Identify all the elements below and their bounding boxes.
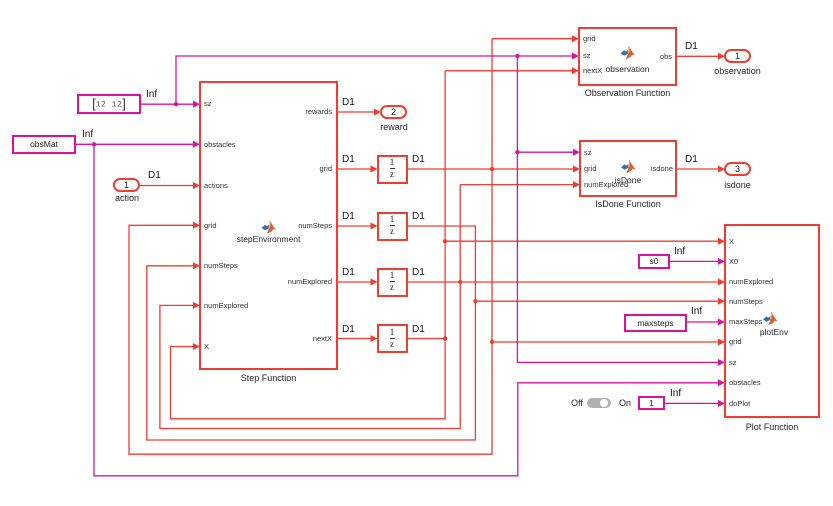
icon stepEnvironment [262, 220, 277, 234]
wire obstacles down to Plot obstacles [94, 144, 719, 476]
wire doPlot const to Plot doPlot [664, 402, 719, 404]
icon isDone [621, 160, 636, 174]
icon observation [621, 46, 636, 60]
label D1 numExplored in [342, 268, 355, 278]
constant 1 doPlot [638, 396, 665, 410]
wire action to Step actions [140, 185, 194, 187]
label D1 nextX out [412, 325, 425, 335]
outport 2 reward [380, 105, 407, 119]
wire numExplored out to unit delay [337, 281, 371, 283]
unit delay grid [377, 155, 408, 184]
outport 1 observation [724, 49, 751, 63]
wire numSteps out to unit delay [337, 225, 371, 227]
label D1 numSteps out [412, 212, 425, 222]
constant obsMat [12, 135, 76, 154]
constant [12 12] [77, 94, 141, 114]
label D1 numSteps in [342, 212, 355, 222]
label D1 grid out [412, 155, 425, 165]
wire s0 to Plot X0 [669, 260, 719, 262]
wire nextX delay out to junction [407, 338, 445, 340]
arrowheads red [193, 35, 725, 350]
wire numExplored branch to IsDone numExplored and feedback to Step numExplored [160, 185, 574, 429]
label D1 isdone [685, 155, 698, 165]
label D1 nextX in [342, 325, 355, 335]
wire grid branch vertical / Observation grid / Plot grid / feedback to Step grid [129, 39, 719, 455]
label Inf maxsteps [691, 307, 702, 317]
label Inf doPlot [670, 389, 681, 399]
label D1 obs [685, 42, 698, 52]
unit delay nextX [377, 324, 408, 353]
wire nextX out to unit delay [337, 338, 371, 340]
block Plot Function [724, 224, 820, 418]
block IsDone Function [579, 140, 677, 197]
junction dots magenta [92, 54, 520, 155]
arrowheads magenta [193, 53, 725, 407]
unit delay numSteps [377, 212, 408, 241]
wire sz up to Observation sz [176, 56, 573, 104]
label Inf s0 [674, 247, 685, 257]
wire isdone to outport 3 [677, 168, 718, 170]
wire grid out to unit delay [337, 168, 371, 170]
block Step Function [199, 81, 338, 370]
junction dots red [443, 167, 494, 344]
label D1 action [148, 171, 161, 181]
wire sz constant to Step sz [140, 103, 194, 105]
wire sz down to IsDone sz and Plot sz [517, 56, 719, 362]
label D1 rewards [342, 98, 355, 108]
label Inf obsMat [82, 130, 93, 140]
wire nextX vertical / Observation nextX / Plot X / feedback to Step X [171, 71, 720, 419]
label Inf [12 12] [146, 90, 157, 100]
constant maxsteps [624, 314, 687, 332]
wire grid delay out to IsDone grid [407, 168, 574, 170]
label D1 numExplored out [412, 268, 425, 278]
toggle switch [567, 398, 587, 408]
label D1 grid in [342, 155, 355, 165]
outport 3 isdone [724, 162, 751, 176]
unit delay fraction labels [377, 158, 408, 167]
constant s0 [638, 254, 670, 269]
wire obs to outport 1 [677, 55, 718, 57]
wire obsMat to Step obstacles [75, 143, 194, 145]
unit delay numExplored [377, 268, 408, 297]
inport 1 action [113, 178, 140, 192]
icon plotEnv [763, 312, 778, 326]
wire numSteps delay out / Plot numSteps / feedback to Step numSteps [147, 226, 719, 440]
wire maxsteps to Plot maxSteps [686, 321, 719, 323]
block Observation Function [578, 27, 677, 86]
wire numExplored delay out to Plot numExplored [407, 281, 719, 283]
wire rewards to outport 2 [337, 111, 375, 113]
